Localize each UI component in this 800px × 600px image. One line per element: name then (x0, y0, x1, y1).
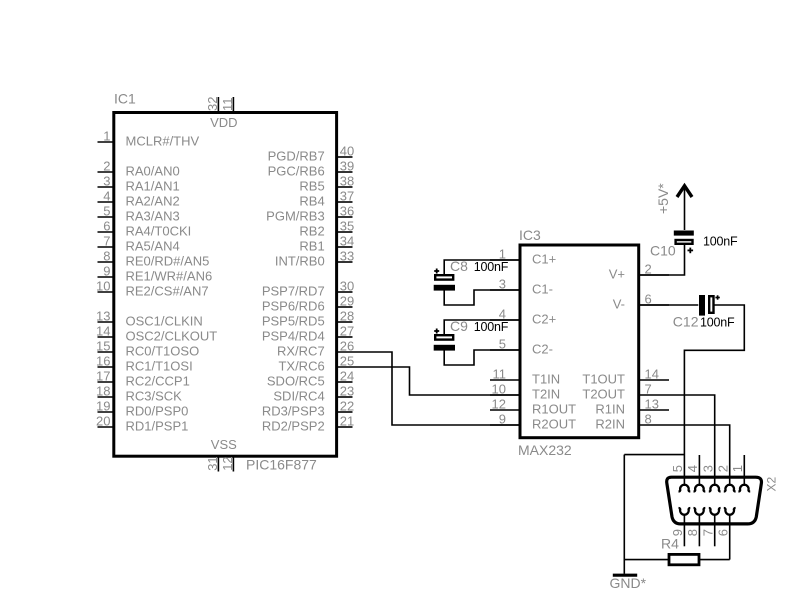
svg-text:RE2/CS#/AN7: RE2/CS#/AN7 (126, 284, 209, 299)
svg-text:RA0/AN0: RA0/AN0 (126, 164, 180, 179)
svg-text:100nF: 100nF (700, 315, 735, 329)
svg-text:19: 19 (96, 399, 110, 414)
svg-text:T2IN: T2IN (532, 387, 560, 402)
svg-text:7: 7 (103, 234, 110, 249)
svg-text:C12: C12 (673, 313, 699, 329)
svg-text:5: 5 (499, 337, 506, 352)
svg-text:37: 37 (340, 189, 354, 204)
svg-text:33: 33 (340, 249, 354, 264)
svg-text:12: 12 (492, 397, 506, 412)
svg-text:9: 9 (499, 412, 506, 427)
svg-text:PGM/RB3: PGM/RB3 (266, 209, 325, 224)
svg-text:8: 8 (685, 529, 700, 536)
svg-text:6: 6 (103, 219, 110, 234)
svg-text:R1OUT: R1OUT (532, 402, 576, 417)
svg-text:35: 35 (340, 219, 354, 234)
svg-text:2: 2 (645, 262, 652, 277)
svg-text:RB5: RB5 (299, 179, 324, 194)
svg-text:25: 25 (340, 354, 354, 369)
svg-text:RA4/T0CKI: RA4/T0CKI (126, 224, 192, 239)
svg-text:SDO/RC5: SDO/RC5 (267, 374, 325, 389)
svg-text:T1OUT: T1OUT (582, 372, 625, 387)
svg-text:4: 4 (103, 189, 110, 204)
svg-text:PIC16F877: PIC16F877 (246, 457, 317, 473)
svg-text:10: 10 (96, 279, 110, 294)
svg-text:1: 1 (103, 129, 110, 144)
svg-text:24: 24 (340, 369, 354, 384)
svg-text:MAX232: MAX232 (518, 442, 572, 458)
svg-text:RC2/CCP1: RC2/CCP1 (126, 374, 190, 389)
svg-text:11: 11 (220, 98, 235, 112)
svg-text:8: 8 (645, 412, 652, 427)
svg-text:INT/RB0: INT/RB0 (275, 254, 325, 269)
svg-text:PSP5/RD5: PSP5/RD5 (262, 314, 325, 329)
svg-text:14: 14 (96, 324, 110, 339)
svg-text:V+: V+ (609, 267, 625, 282)
svg-text:3: 3 (700, 465, 715, 472)
svg-text:V-: V- (613, 297, 625, 312)
svg-text:22: 22 (340, 399, 354, 414)
svg-text:23: 23 (340, 384, 354, 399)
svg-text:SDI/RC4: SDI/RC4 (273, 389, 324, 404)
svg-text:RC3/SCK: RC3/SCK (126, 389, 183, 404)
svg-text:T1IN: T1IN (532, 372, 560, 387)
svg-text:RB1: RB1 (299, 239, 324, 254)
svg-text:2: 2 (103, 159, 110, 174)
svg-text:6: 6 (715, 529, 730, 536)
svg-text:29: 29 (340, 294, 354, 309)
svg-text:38: 38 (340, 174, 354, 189)
svg-text:4: 4 (685, 465, 700, 472)
svg-text:PGD/RB7: PGD/RB7 (268, 149, 325, 164)
svg-text:RX/RC7: RX/RC7 (277, 344, 325, 359)
svg-text:GND*: GND* (610, 575, 647, 591)
svg-text:RA3/AN3: RA3/AN3 (126, 209, 180, 224)
svg-text:R1IN: R1IN (595, 402, 625, 417)
svg-text:OSC2/CLKOUT: OSC2/CLKOUT (126, 329, 218, 344)
svg-text:PGC/RB6: PGC/RB6 (268, 164, 325, 179)
svg-text:13: 13 (645, 397, 659, 412)
svg-text:27: 27 (340, 324, 354, 339)
svg-text:5: 5 (670, 465, 685, 472)
svg-text:PSP4/RD4: PSP4/RD4 (262, 329, 325, 344)
svg-text:R4: R4 (661, 535, 679, 551)
svg-text:VDD: VDD (210, 115, 237, 130)
svg-text:RD2/PSP2: RD2/PSP2 (262, 419, 325, 434)
svg-text:3: 3 (103, 174, 110, 189)
svg-text:RD0/PSP0: RD0/PSP0 (126, 404, 189, 419)
svg-text:40: 40 (340, 144, 354, 159)
svg-text:32: 32 (205, 97, 220, 111)
svg-text:3: 3 (499, 277, 506, 292)
svg-text:36: 36 (340, 204, 354, 219)
svg-text:11: 11 (493, 367, 507, 382)
svg-text:C8: C8 (450, 258, 468, 274)
svg-text:26: 26 (340, 339, 354, 354)
svg-text:6: 6 (645, 292, 652, 307)
svg-text:RA5/AN4: RA5/AN4 (126, 239, 180, 254)
svg-text:17: 17 (96, 369, 110, 384)
svg-text:28: 28 (340, 309, 354, 324)
svg-text:T2OUT: T2OUT (582, 387, 625, 402)
svg-text:C2+: C2+ (532, 312, 556, 327)
svg-text:34: 34 (340, 234, 354, 249)
svg-text:TX/RC6: TX/RC6 (278, 359, 324, 374)
svg-text:16: 16 (96, 354, 110, 369)
svg-text:100nF: 100nF (474, 320, 509, 334)
svg-text:2: 2 (715, 465, 730, 472)
svg-text:31: 31 (205, 456, 220, 470)
svg-text:9: 9 (103, 264, 110, 279)
svg-text:39: 39 (340, 159, 354, 174)
svg-text:X2: X2 (765, 476, 779, 491)
svg-text:PSP6/RD6: PSP6/RD6 (262, 299, 325, 314)
svg-text:RD1/PSP1: RD1/PSP1 (126, 419, 189, 434)
svg-text:7: 7 (645, 382, 652, 397)
svg-text:C1+: C1+ (532, 252, 556, 267)
svg-text:RA1/AN1: RA1/AN1 (126, 179, 180, 194)
svg-text:10: 10 (492, 382, 506, 397)
svg-text:12: 12 (220, 456, 235, 470)
svg-text:100nF: 100nF (474, 260, 509, 274)
svg-text:RB2: RB2 (299, 224, 324, 239)
svg-text:RC1/T1OSI: RC1/T1OSI (126, 359, 193, 374)
svg-text:C2-: C2- (532, 342, 553, 357)
svg-text:+5V*: +5V* (655, 183, 671, 214)
svg-text:IC1: IC1 (114, 91, 136, 107)
svg-text:R2OUT: R2OUT (532, 417, 576, 432)
svg-text:7: 7 (700, 529, 715, 536)
svg-text:IC3: IC3 (519, 227, 541, 243)
svg-text:18: 18 (96, 384, 110, 399)
svg-text:8: 8 (103, 249, 110, 264)
svg-text:RB4: RB4 (299, 194, 324, 209)
svg-text:VSS: VSS (211, 437, 237, 452)
svg-text:30: 30 (340, 279, 354, 294)
svg-text:RA2/AN2: RA2/AN2 (126, 194, 180, 209)
svg-text:100nF: 100nF (703, 234, 738, 248)
svg-text:C1-: C1- (532, 282, 553, 297)
svg-text:21: 21 (340, 414, 354, 429)
svg-text:RE0/RD#/AN5: RE0/RD#/AN5 (126, 254, 210, 269)
svg-text:C9: C9 (450, 318, 468, 334)
svg-text:OSC1/CLKIN: OSC1/CLKIN (126, 314, 203, 329)
svg-text:20: 20 (96, 414, 110, 429)
svg-text:C10: C10 (650, 243, 676, 259)
svg-text:14: 14 (645, 367, 659, 382)
svg-text:5: 5 (103, 204, 110, 219)
svg-text:15: 15 (96, 339, 110, 354)
svg-text:1: 1 (730, 465, 745, 472)
svg-text:MCLR#/THV: MCLR#/THV (126, 134, 200, 149)
svg-text:RE1/WR#/AN6: RE1/WR#/AN6 (126, 269, 213, 284)
svg-text:PSP7/RD7: PSP7/RD7 (262, 284, 325, 299)
svg-text:RD3/PSP3: RD3/PSP3 (262, 404, 325, 419)
svg-text:13: 13 (96, 309, 110, 324)
svg-text:R2IN: R2IN (595, 417, 625, 432)
svg-text:RC0/T1OSO: RC0/T1OSO (126, 344, 200, 359)
